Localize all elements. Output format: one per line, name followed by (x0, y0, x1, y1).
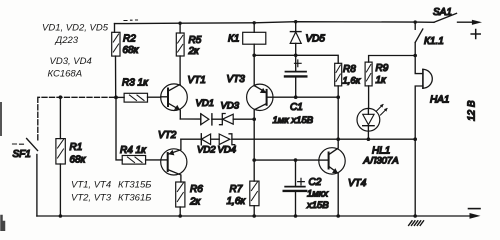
transistor VT4 (319, 139, 367, 216)
junction C1 bottom (294, 95, 298, 99)
svg-text:VT2: VT2 (158, 130, 177, 141)
node wire K1 bottom to R8 (segment A) (254, 55, 338, 63)
svg-text:1мкх: 1мкх (307, 189, 329, 200)
sounder HA1 (415, 56, 449, 140)
svg-text:R3 1к: R3 1к (122, 78, 149, 89)
resistor R5 (176, 23, 201, 84)
junction top bus at VD5 (294, 20, 297, 23)
junction top bus at R5 (178, 22, 181, 25)
annotation diode types (42, 23, 109, 80)
svg-text:1,6к: 1,6к (343, 76, 361, 87)
svg-text:VT1: VT1 (188, 75, 206, 86)
wire to + terminal (458, 21, 475, 23)
svg-text:R2: R2 (123, 34, 136, 45)
junction top bus at K1 (253, 21, 256, 24)
relay coil K1 (228, 23, 266, 56)
junction K1.1 / HA1 / R9 line (413, 54, 417, 58)
svg-text:SF1: SF1 (13, 149, 31, 160)
svg-text:КТ361Б: КТ361Б (118, 193, 151, 204)
wire VT4 base line (254, 159, 319, 161)
transistor VT3 (227, 55, 274, 119)
resistor R3 (116, 78, 161, 103)
svg-text:VD4: VD4 (218, 145, 236, 156)
scan tick marks on top bus (124, 19, 138, 22)
svg-text:R1: R1 (70, 142, 83, 153)
svg-text:1,6к: 1,6к (227, 196, 247, 207)
svg-text:68к: 68к (70, 155, 87, 166)
annotation transistor types (71, 180, 151, 204)
LED HL1 (357, 104, 399, 167)
svg-text:VD5: VD5 (306, 34, 326, 45)
junction row2 / VT4 collector (336, 137, 340, 141)
resistor R4 (120, 145, 161, 164)
junction C2 top (294, 158, 298, 162)
wire bottom return bus (37, 215, 470, 217)
wire VD2-VD4 (211, 138, 220, 140)
svg-text:VT2, VT3: VT2, VT3 (71, 193, 112, 204)
junction bottom bus R7 (252, 214, 256, 218)
svg-text:х15В: х15В (306, 200, 329, 211)
junction bottom bus C2 (294, 214, 298, 218)
svg-text:68к: 68к (123, 45, 140, 56)
junction row2 / HA1 column (413, 137, 417, 141)
svg-text:2к: 2к (188, 46, 201, 57)
diode VD2 (197, 134, 216, 156)
svg-text:R9: R9 (376, 63, 389, 74)
svg-text:НА1: НА1 (430, 95, 449, 106)
wire VT2 emitter to VD2 (181, 138, 201, 140)
svg-text:VT4: VT4 (348, 178, 367, 189)
svg-text:VD3: VD3 (221, 101, 240, 112)
svg-text:12 В: 12 В (467, 100, 478, 121)
capacitor C1 (273, 55, 314, 126)
switch SF1 (13, 139, 38, 217)
terminal - (arrow) (469, 209, 481, 219)
junction R1 top (59, 95, 63, 99)
ground (chassis) (409, 221, 424, 226)
junction bottom bus R1 (59, 214, 63, 218)
zener diode VD3 (220, 101, 240, 125)
wire R2 top lead (114, 24, 116, 33)
resistor R6 (176, 182, 204, 216)
wire VD1-VD3 (212, 118, 222, 120)
wire dashed to SF1 (38, 97, 115, 140)
relay contact K1.1 (415, 22, 444, 55)
wire top supply bus (115, 22, 435, 24)
diode VD1 (196, 98, 214, 125)
svg-text:C2: C2 (309, 177, 322, 188)
svg-text:КТ315Б: КТ315Б (118, 180, 151, 191)
svg-text:VD1: VD1 (196, 98, 214, 109)
svg-text:SA1: SA1 (433, 7, 452, 18)
wire node to R4 (116, 97, 122, 159)
svg-text:VT1, VT4: VT1, VT4 (71, 180, 111, 191)
switch SA1 (433, 7, 457, 22)
svg-text:VD3, VD4: VD3, VD4 (50, 56, 92, 67)
svg-text:C1: C1 (290, 102, 303, 113)
capacitor C2 (284, 160, 330, 216)
svg-text:К1.1: К1.1 (424, 36, 444, 47)
resistor R9 (365, 62, 389, 108)
diode VD5 (290, 22, 325, 56)
svg-text:К1: К1 (228, 34, 239, 45)
junction bottom bus ground (413, 214, 417, 218)
svg-text:R4 1к: R4 1к (120, 145, 147, 156)
junction node R2/R3/R4 (114, 96, 118, 100)
junction bottom bus R6 (178, 214, 182, 218)
svg-text:2к: 2к (189, 197, 202, 208)
svg-text:R6: R6 (190, 184, 203, 195)
scan smudge bottom-left corner (2, 216, 5, 231)
resistor R8 (335, 63, 361, 139)
svg-text:VT3: VT3 (227, 74, 246, 85)
wire VT1 emitter to VD1 (180, 118, 201, 120)
svg-text:R5: R5 (189, 35, 202, 46)
junction VD5/C1 (294, 54, 298, 58)
svg-text:R7: R7 (230, 184, 243, 195)
wire VD3 to VT3 collector column (233, 118, 254, 120)
junction row2 / HL1 (367, 137, 371, 141)
wire HA1 column to bottom bus (414, 139, 416, 216)
svg-text:Д223: Д223 (55, 35, 79, 46)
terminal + (arrow) (471, 20, 482, 39)
svg-text:R8: R8 (343, 64, 356, 75)
svg-text:АЛ307А: АЛ307А (363, 156, 399, 167)
wire VT3 base / C1 bottom / R8 bottom (273, 96, 338, 98)
resistor R1 (56, 97, 87, 216)
svg-text:КС168А: КС168А (48, 69, 83, 80)
svg-text:VD1, VD2, VD5: VD1, VD2, VD5 (42, 23, 109, 34)
svg-text:1к: 1к (376, 75, 388, 86)
junction row1 / VT3 collector (252, 117, 256, 121)
zener diode VD4 (218, 134, 236, 156)
resistor R7 (227, 119, 260, 216)
junction K1/VT3 emitter (252, 54, 256, 58)
scan smudge left edge (0, 103, 2, 135)
transistor VT1 (161, 75, 206, 119)
svg-text:1мк х15В: 1мк х15В (273, 115, 314, 126)
junction VT4 base line / R7 (252, 158, 256, 162)
junction bottom bus VT4 emitter (336, 214, 340, 218)
junction top bus at K1.1 (414, 20, 417, 23)
wire R9 to K1.1 (segment B) (369, 56, 416, 63)
wire row2 VD4 to HA1 column (232, 138, 415, 140)
svg-text:VD2: VD2 (197, 145, 216, 156)
transistor VT2 (158, 130, 187, 182)
junction R8 bottom (336, 95, 340, 99)
resistor R2 (112, 32, 140, 97)
